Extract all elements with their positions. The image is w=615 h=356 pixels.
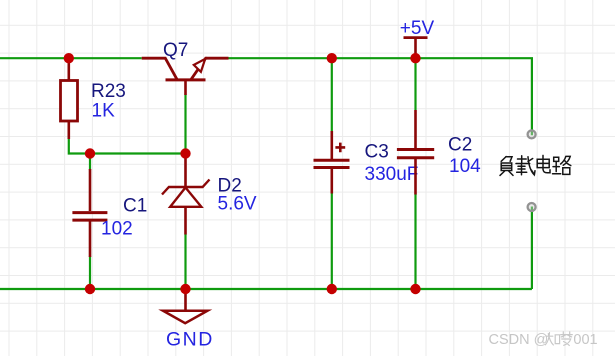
value 330uF [365,164,419,185]
value 102 [101,219,133,240]
wire top-right horizontal then down to load pin [229,58,532,135]
wire C1 bottom stub [89,256,91,289]
wire C2 top stub [414,58,416,110]
label C1 [123,196,147,217]
resistor R23 [61,58,78,139]
svg-text:R23: R23 [91,81,126,102]
capacitor C3 (electrolytic) [314,131,350,194]
junction middle at D2 [180,148,190,158]
svg-text:1K: 1K [92,101,116,122]
svg-text:GND: GND [166,328,214,350]
char 路 [553,156,571,174]
junction bottom at C3 [327,284,337,294]
pin circle load top [528,130,536,138]
label R23 [91,81,126,102]
junction top at C3 [327,53,337,63]
svg-text:5.6V: 5.6V [218,194,257,215]
power port +5V [404,38,428,59]
label Q7 [163,40,188,61]
pin circle load bottom [528,203,536,211]
capacitor C1 [72,169,107,257]
transistor Q7 [142,58,229,95]
value 1K [92,101,116,122]
junction top at +5V / C2 [410,53,420,63]
wire top-left horizontal [0,57,142,59]
svg-text:Q7: Q7 [163,40,188,61]
junction bottom at GND [180,284,190,294]
value 5.6V [218,194,257,215]
char 载 [516,156,535,175]
zener diode D2 [162,154,210,235]
junction bottom at C1 [85,284,95,294]
label C3 [365,142,389,163]
wire C3 bottom stub [331,193,333,289]
text 负载电路 (load circuit, drawn strokes) [500,155,571,175]
svg-text:C1: C1 [123,196,147,217]
junction top at R23 [64,53,74,63]
wire Q7 base to middle rail [184,95,186,154]
junction middle at C1 [85,148,95,158]
svg-text:C3: C3 [365,142,389,163]
wire D2 bottom to bottom rail [184,234,186,289]
wire load pin down to bottom rail [531,207,533,290]
capacitor C2 [397,110,434,195]
char 梦 [561,332,573,346]
label C2 [448,135,472,156]
value 104 [449,156,481,177]
char 电 [537,155,550,172]
watermark CSDN @如梦001 [489,332,598,348]
char 如 [545,333,559,345]
wire R23 bottom to middle rail [69,138,186,154]
ground symbol [163,289,208,323]
label D2 [218,176,242,197]
net label +5V [400,18,435,39]
wire C3 top stub [331,58,333,131]
svg-text:+5V: +5V [400,18,435,39]
wire C2 bottom stub [414,194,416,289]
net label GND [166,328,214,350]
svg-text:001: 001 [573,332,597,348]
junction bottom at C2 [410,284,420,294]
wire bottom rail [0,288,532,290]
svg-text:104: 104 [449,156,481,177]
svg-text:102: 102 [101,219,133,240]
svg-text:330uF: 330uF [365,164,419,185]
wire C1 top stub [89,154,91,171]
svg-text:CSDN @: CSDN @ [489,332,549,348]
svg-text:C2: C2 [448,135,472,156]
char 负 [500,157,513,176]
